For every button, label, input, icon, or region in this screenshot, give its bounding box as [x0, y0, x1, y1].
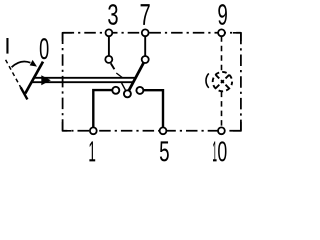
terminal 10	[218, 127, 225, 134]
dashed position-I line	[6, 60, 21, 87]
label 9	[218, 4, 227, 25]
housing corner top-left	[63, 33, 72, 41]
wire L from left contact to terminal 1	[93, 90, 112, 127]
actuator rod upper line	[34, 77, 135, 79]
label 0	[40, 38, 49, 59]
wire terminal 7 stem	[144, 35, 146, 57]
wire L from right contact to terminal 5	[143, 90, 163, 127]
arc arrow (toggle direction)	[12, 62, 31, 68]
terminal 1	[90, 127, 97, 134]
contact circle B (terminal 7)	[142, 56, 149, 63]
housing dash-dot border right	[240, 33, 242, 131]
label I (position I)	[6, 38, 8, 54]
housing dash-dot border bottom	[63, 130, 241, 132]
actuator lever (position 0)	[25, 62, 43, 94]
terminal 3	[106, 29, 113, 36]
moving contact lever B to pivot	[129, 63, 144, 91]
lamp left paren	[206, 73, 209, 87]
contact circle left (pivot row)	[112, 87, 119, 94]
actuator rod lower line	[31, 81, 133, 83]
label 10 digit 1	[213, 141, 217, 161]
rod arrowhead	[41, 75, 51, 85]
label 5	[160, 141, 169, 161]
lamp X diagonal 2	[216, 75, 230, 89]
housing dash-dot border top	[63, 32, 241, 34]
housing corner bottom-left	[63, 122, 71, 131]
label 7	[141, 4, 150, 25]
contact A open stub	[111, 63, 115, 69]
position-I line solid end	[21, 87, 28, 99]
label 3	[108, 4, 118, 25]
housing dash-dot border left	[62, 33, 64, 131]
label 10 digit 0	[218, 141, 226, 161]
housing corner bottom-right	[233, 122, 241, 131]
arc arrowhead	[30, 60, 37, 67]
rod-to-pivot link line	[122, 83, 126, 91]
rod drive slash	[116, 73, 122, 78]
wire terminal 10 dashed stem	[221, 92, 223, 128]
contact circle middle (pivot)	[124, 90, 131, 97]
terminal 9	[218, 29, 225, 36]
terminal 5	[160, 127, 167, 134]
wire terminal 3 stem	[108, 35, 110, 57]
lamp X diagonal 1	[216, 75, 230, 89]
terminal 7	[142, 29, 149, 36]
housing corner top-right	[233, 33, 241, 41]
illumination lamp (dashed circle)	[213, 72, 232, 91]
contact circle A (terminal 3)	[105, 56, 112, 63]
wire terminal 9 dashed stem	[221, 36, 223, 71]
label 1	[89, 141, 95, 161]
contact circle right	[136, 87, 143, 94]
